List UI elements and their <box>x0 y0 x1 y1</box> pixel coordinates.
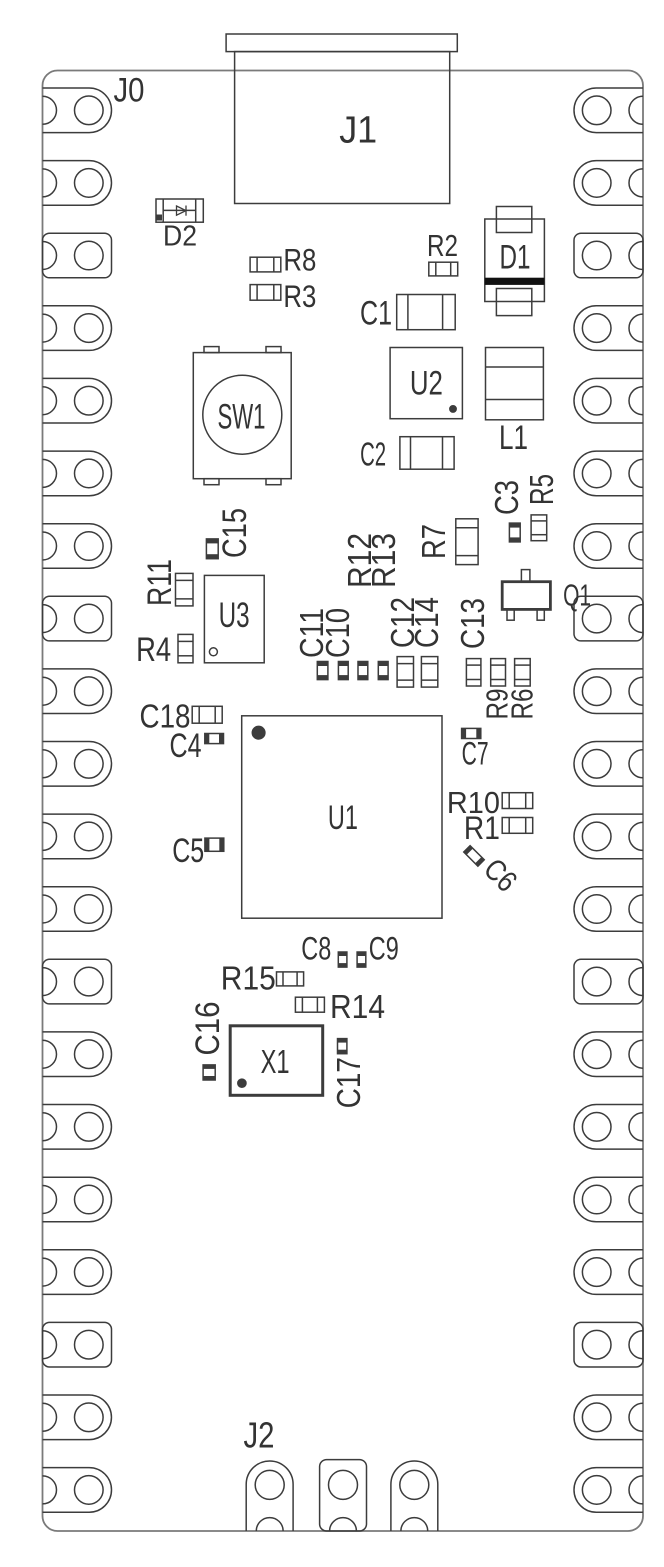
resistor R14 <box>295 997 324 1012</box>
svg-text:C1: C1 <box>360 294 392 332</box>
connector J0 pin 37 (right pad row 17) <box>574 1250 643 1295</box>
svg-text:C4: C4 <box>170 727 202 765</box>
svg-text:L1: L1 <box>499 419 528 457</box>
connector J0 pin 6 (left pad row 6) <box>43 451 112 496</box>
connector J0 pin 14 (left pad row 14) <box>43 1032 112 1077</box>
connector J0 pin 26 (right pad row 6) <box>574 451 643 496</box>
resistor R13 <box>378 662 388 680</box>
USB connector J1 shield tab <box>226 34 457 52</box>
connector J2 pin 2 <box>320 1460 367 1531</box>
connector J0 pin 3 (left pad row 3) <box>43 233 112 278</box>
svg-text:R11: R11 <box>141 559 179 606</box>
svg-text:R8: R8 <box>283 242 316 278</box>
capacitor C9 <box>357 952 366 967</box>
connector J0 pin 8 (left pad row 8) <box>43 596 112 641</box>
capacitor C15 <box>206 539 218 559</box>
svg-text:C15: C15 <box>216 508 254 558</box>
connector J0 pin 15 (left pad row 15) <box>43 1105 112 1150</box>
capacitor C6 <box>464 846 485 867</box>
capacitor C14 <box>421 657 437 688</box>
capacitor C7 <box>462 728 481 738</box>
capacitor C5 <box>205 838 224 851</box>
svg-text:R6: R6 <box>507 689 540 720</box>
USB connector J1 body <box>235 52 450 204</box>
diode D1 <box>496 207 531 233</box>
diode D2 <box>156 199 203 222</box>
svg-text:J0: J0 <box>114 72 145 110</box>
svg-text:SW1: SW1 <box>218 398 266 437</box>
svg-text:R2: R2 <box>427 230 458 263</box>
connector J0 pin 19 (left pad row 19) <box>43 1395 112 1440</box>
resistor R1 <box>502 818 533 834</box>
svg-text:C16: C16 <box>189 1002 227 1056</box>
connector J0 pin 35 (right pad row 15) <box>574 1105 643 1150</box>
svg-text:R13: R13 <box>365 533 402 588</box>
connector J0 pin 7 (left pad row 7) <box>43 524 112 569</box>
connector J2 pin 3 <box>391 1461 438 1531</box>
svg-text:C13: C13 <box>454 598 491 649</box>
capacitor C4 <box>205 734 224 744</box>
connector J0 pin 32 (right pad row 12) <box>574 887 643 932</box>
capacitor C3 <box>509 523 520 542</box>
capacitor C11 <box>317 662 328 680</box>
connector J0 pin 23 (right pad row 3) <box>574 233 643 278</box>
resistor R15 <box>277 972 304 986</box>
connector J0 pin 36 (right pad row 16) <box>574 1177 643 1222</box>
resistor R2 <box>429 262 458 276</box>
connector J0 pin 31 (right pad row 11) <box>574 814 643 859</box>
connector J0 pin 18 (left pad row 18) <box>43 1322 112 1367</box>
svg-text:C10: C10 <box>319 608 356 658</box>
svg-text:J1: J1 <box>339 108 377 150</box>
svg-text:R7: R7 <box>415 524 452 559</box>
svg-text:U1: U1 <box>328 799 358 837</box>
resistor R10 <box>502 793 533 809</box>
resistor R6 <box>515 659 531 686</box>
svg-text:U2: U2 <box>410 365 443 403</box>
connector J0 pin 5 (left pad row 5) <box>43 378 112 423</box>
capacitor C18 <box>192 706 222 723</box>
capacitor C13 <box>466 659 481 686</box>
connector J0 pin 28 (right pad row 8) <box>574 596 643 641</box>
connector J0 pin 11 (left pad row 11) <box>43 814 112 859</box>
svg-text:C3: C3 <box>488 480 525 515</box>
svg-text:R5: R5 <box>523 474 560 505</box>
crystal X1 <box>230 1026 323 1096</box>
resistor R8 <box>250 257 281 272</box>
connector J0 pin 40 (right pad row 20) <box>574 1468 643 1513</box>
resistor R3 <box>250 285 281 301</box>
connector J0 pin 39 (right pad row 19) <box>574 1395 643 1440</box>
capacitor C12 <box>397 657 413 688</box>
svg-text:C17: C17 <box>330 1057 367 1108</box>
svg-text:D1: D1 <box>500 239 531 277</box>
capacitor C2 <box>400 437 454 470</box>
capacitor C8 <box>338 952 347 967</box>
inductor L1 <box>486 348 544 420</box>
resistor R11 <box>176 573 194 606</box>
transistor Q1 <box>502 582 550 610</box>
connector J0 pin 33 (right pad row 13) <box>574 959 643 1004</box>
svg-text:R4: R4 <box>136 631 171 669</box>
svg-text:C9: C9 <box>369 931 399 967</box>
svg-text:D2: D2 <box>163 221 197 253</box>
resistor R7 <box>456 519 478 565</box>
connector J0 pin 9 (left pad row 9) <box>43 669 112 714</box>
svg-text:R15: R15 <box>221 961 276 998</box>
capacitor C10 <box>338 662 348 680</box>
connector J0 pin 16 (left pad row 16) <box>43 1177 112 1222</box>
IC U3 <box>204 575 264 662</box>
svg-text:R14: R14 <box>330 989 385 1026</box>
svg-text:C5: C5 <box>172 832 204 870</box>
svg-text:Q1: Q1 <box>563 579 591 613</box>
connector J0 pin 2 (left pad row 2) <box>43 161 112 206</box>
connector J0 pin 25 (right pad row 5) <box>574 378 643 423</box>
MCU U1 <box>242 716 442 918</box>
resistor R4 <box>178 634 193 662</box>
connector J0 pin 22 (right pad row 2) <box>574 161 643 206</box>
svg-text:C2: C2 <box>360 437 386 474</box>
capacitor C1 <box>397 295 456 330</box>
connector J0 pin 1 (left pad row 1) <box>43 88 112 133</box>
connector J0 pin 10 (left pad row 10) <box>43 742 112 787</box>
connector J0 pin 29 (right pad row 9) <box>574 669 643 714</box>
regulator U2 <box>390 348 462 419</box>
connector J0 pin 34 (right pad row 14) <box>574 1032 643 1077</box>
svg-text:C8: C8 <box>301 931 331 967</box>
svg-text:C7: C7 <box>462 736 489 772</box>
connector J2 pin 1 <box>246 1461 293 1531</box>
switch SW1 <box>193 353 291 479</box>
svg-text:C14: C14 <box>408 597 445 648</box>
resistor R9 <box>491 659 506 686</box>
svg-text:U3: U3 <box>219 596 250 635</box>
resistor R12 <box>358 662 368 680</box>
svg-text:X1: X1 <box>261 1043 290 1080</box>
connector J0 pin 12 (left pad row 12) <box>43 887 112 932</box>
svg-text:J2: J2 <box>244 1416 275 1456</box>
resistor R5 <box>531 515 547 541</box>
connector J0 pin 38 (right pad row 18) <box>574 1322 643 1367</box>
capacitor C17 <box>338 1039 347 1054</box>
connector J0 pin 13 (left pad row 13) <box>43 959 112 1004</box>
svg-text:R1: R1 <box>464 810 500 846</box>
connector J0 pin 21 (right pad row 1) <box>574 88 643 133</box>
connector J0 pin 17 (left pad row 17) <box>43 1250 112 1295</box>
connector J0 pin 30 (right pad row 10) <box>574 742 643 787</box>
capacitor C16 <box>203 1065 215 1080</box>
connector J0 pin 20 (left pad row 20) <box>43 1468 112 1513</box>
connector J0 pin 4 (left pad row 4) <box>43 306 112 351</box>
connector J0 pin 24 (right pad row 4) <box>574 306 643 351</box>
connector J0 pin 27 (right pad row 7) <box>574 524 643 569</box>
svg-text:R3: R3 <box>283 278 316 314</box>
